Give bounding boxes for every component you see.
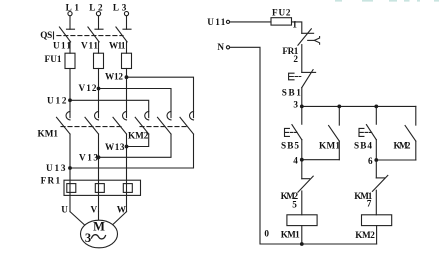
svg-text:U11: U11 bbox=[207, 17, 225, 27]
svg-text:V: V bbox=[90, 204, 97, 214]
svg-text:3: 3 bbox=[85, 231, 91, 245]
svg-text:KM1: KM1 bbox=[281, 229, 300, 239]
svg-text:W11: W11 bbox=[109, 40, 126, 50]
svg-text:FU2: FU2 bbox=[272, 7, 291, 17]
svg-text:SB4: SB4 bbox=[354, 141, 372, 151]
svg-text:KM1: KM1 bbox=[38, 128, 59, 138]
svg-text:V12: V12 bbox=[79, 83, 97, 93]
svg-text:0: 0 bbox=[264, 229, 269, 239]
svg-text:U12: U12 bbox=[47, 96, 67, 106]
svg-text:M: M bbox=[93, 220, 105, 234]
svg-text:KM2: KM2 bbox=[394, 141, 411, 151]
svg-text:W: W bbox=[117, 204, 127, 214]
svg-text:1: 1 bbox=[292, 20, 297, 30]
svg-text:6: 6 bbox=[368, 156, 373, 166]
svg-text:SB5: SB5 bbox=[281, 141, 299, 151]
svg-text:FR1: FR1 bbox=[282, 46, 298, 56]
svg-text:QS: QS bbox=[40, 30, 52, 40]
svg-text:U: U bbox=[61, 204, 68, 214]
svg-text:KM1: KM1 bbox=[319, 141, 340, 151]
svg-text:KM2: KM2 bbox=[355, 230, 375, 240]
svg-text:KM1: KM1 bbox=[354, 191, 372, 201]
svg-text:3: 3 bbox=[293, 99, 298, 109]
svg-text:V11: V11 bbox=[81, 40, 98, 50]
svg-text:KM2: KM2 bbox=[281, 191, 299, 201]
svg-text:W12: W12 bbox=[105, 72, 123, 82]
svg-text:4: 4 bbox=[293, 155, 298, 165]
svg-text:W13: W13 bbox=[105, 142, 125, 152]
svg-text:V13: V13 bbox=[79, 152, 98, 162]
svg-text:FR1: FR1 bbox=[41, 175, 61, 185]
svg-text:FU1: FU1 bbox=[45, 54, 62, 64]
svg-text:N: N bbox=[217, 42, 224, 52]
svg-text:KM2: KM2 bbox=[128, 131, 149, 141]
svg-text:U13: U13 bbox=[46, 163, 66, 173]
svg-text:U11: U11 bbox=[53, 40, 71, 50]
svg-text:SB1: SB1 bbox=[282, 88, 301, 98]
